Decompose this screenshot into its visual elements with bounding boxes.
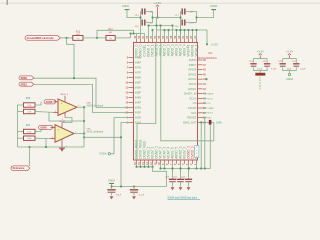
- svg-text:GNDA: GNDA: [108, 180, 115, 183]
- wire: [115, 37, 130, 39]
- svg-text:IN2N: IN2N: [135, 116, 141, 120]
- svg-text:0.1uF: 0.1uF: [271, 68, 277, 70]
- svg-text:+2.5V: +2.5V: [154, 1, 162, 5]
- svg-text:0.1uF: 0.1uF: [300, 68, 306, 70]
- svg-text:IN8P: IN8P: [135, 61, 141, 65]
- wire BIAS pin down: [121, 123, 129, 187]
- svg-text:DAISY_IN: DAISY_IN: [184, 92, 196, 96]
- svg-text:GNDA: GNDA: [286, 78, 294, 81]
- svg-text:100k: 100k: [27, 138, 31, 140]
- frame tick top-left: [6, 0, 8, 5]
- svg-text:R12: R12: [108, 28, 113, 31]
- net labels right of IC: [203, 93, 207, 95]
- wire +3.3V drop: [206, 30, 208, 44]
- wire from RESET pin down: [203, 118, 205, 169]
- wire op2 output: [74, 133, 86, 135]
- svg-text:IC1: IC1: [208, 51, 213, 55]
- svg-text:SRB1: SRB1: [21, 83, 28, 86]
- op-amp U$4: [58, 99, 77, 116]
- svg-text:DVDD: DVDD: [189, 58, 197, 62]
- wire cap right rail: [152, 12, 154, 23]
- svg-text:IN5N: IN5N: [135, 86, 141, 90]
- wire cluster A left rail drop: [140, 23, 142, 34]
- wire drop from R11 node down: [67, 38, 75, 78]
- svg-text:RST: RST: [207, 118, 212, 120]
- IC1 right pins: [198, 59, 203, 61]
- svg-text:CLK: CLK: [191, 111, 196, 115]
- svg-text:Ground/REF electrode: Ground/REF electrode: [27, 36, 55, 40]
- svg-text:GNDA: GNDA: [59, 120, 65, 123]
- op IC body IC1: [134, 43, 198, 161]
- wire gnda rail: [112, 186, 167, 188]
- frame box bottom-right inside IC: [195, 146, 199, 158]
- wire cap left rail: [140, 12, 142, 23]
- supply AVSS bar: [255, 73, 265, 76]
- wire feedback op2: [45, 139, 47, 147]
- svg-text:0.1uF: 0.1uF: [139, 194, 145, 196]
- svg-text:START: START: [207, 107, 215, 110]
- wire bypass over R12: [97, 30, 134, 38]
- junction: [96, 37, 98, 39]
- svg-text:AVDD: AVDD: [61, 93, 67, 96]
- wire through IC interior A: [137, 43, 156, 161]
- net label SRB2: [19, 76, 34, 80]
- wire bottom bus right: [161, 168, 211, 170]
- svg-text:IN6P: IN6P: [135, 81, 141, 85]
- wire SRB2 to IN pin: [34, 78, 129, 107]
- svg-text:10uF: 10uF: [257, 68, 262, 70]
- net label AGND op1: [44, 100, 56, 104]
- svg-text:GPIO4: GPIO4: [188, 68, 197, 72]
- svg-text:START: START: [188, 106, 197, 110]
- wire branch feedback to BIAS: [84, 136, 121, 138]
- svg-text:+3.3V: +3.3V: [257, 49, 265, 53]
- svg-text:GPIO3: GPIO3: [188, 72, 197, 76]
- svg-text:AGND: AGND: [40, 126, 47, 129]
- svg-text:SCLK: SCLK: [189, 96, 196, 100]
- svg-text:IN4N: IN4N: [135, 96, 141, 100]
- wire bottom gnd group: [137, 166, 153, 168]
- wire cluster B left rail drop: [180, 23, 182, 40]
- svg-text:IN7N: IN7N: [135, 66, 141, 70]
- wire left bus: [18, 105, 24, 147]
- svg-text:MCLK: MCLK: [207, 113, 214, 115]
- svg-text:VCAP_1: VCAP_1: [195, 44, 199, 56]
- svg-text:AVSS_feedback: AVSS_feedback: [87, 131, 104, 134]
- wire to top pins rail: [130, 34, 132, 38]
- svg-text:BIAS_OUT: BIAS_OUT: [183, 120, 197, 124]
- svg-text:100k: 100k: [27, 111, 31, 113]
- svg-text:R15: R15: [26, 98, 31, 100]
- supply +3.3V right of IC: [206, 43, 208, 45]
- IC1 left pins: [129, 57, 134, 59]
- svg-text:+3.3V: +3.3V: [211, 43, 219, 47]
- ground GNDA under bank: [288, 73, 290, 75]
- wire cap left rail: [180, 12, 182, 23]
- wire SRB1 to IN pin: [34, 84, 129, 112]
- wire right loop: [209, 125, 211, 169]
- svg-text:AGND: AGND: [46, 101, 53, 104]
- wire second vertical: [200, 122, 202, 124]
- wire gnd to caps: [127, 10, 141, 18]
- wire through IC interior B: [161, 43, 214, 141]
- capacitor C20: [130, 190, 138, 192]
- wire rail2: [157, 29, 208, 31]
- svg-text:ADS1299IPAG: ADS1299IPAG: [198, 56, 218, 60]
- IC1 bottom pins: [136, 160, 138, 164]
- svg-text:100k: 100k: [27, 131, 31, 133]
- wire rail3: [131, 33, 145, 35]
- svg-text:GPIO1: GPIO1: [188, 87, 197, 91]
- svg-text:IN8N: IN8N: [135, 56, 141, 60]
- junction: [66, 37, 68, 39]
- wire feedback to -in: [49, 112, 84, 121]
- svg-text:DAISY: DAISY: [207, 93, 214, 96]
- wire pin risers top: [136, 34, 138, 40]
- net label AGND op2: [39, 125, 54, 129]
- wire cap right rail: [196, 12, 198, 23]
- wire gnda to pin: [111, 118, 129, 154]
- wire op1 output + feedback: [77, 106, 86, 108]
- wire reference bus: [18, 146, 85, 148]
- IC1 top pins: [136, 39, 138, 43]
- net label Reference: [11, 166, 30, 171]
- svg-text:CS: CS: [193, 101, 197, 105]
- net label SRB1: [19, 82, 34, 86]
- ground AGND below op2: [59, 147, 65, 149]
- wire R16 to -in: [35, 111, 54, 114]
- svg-text:GPIO2: GPIO2: [188, 77, 197, 81]
- svg-text:10k: 10k: [109, 38, 112, 40]
- wire: [61, 37, 73, 39]
- svg-text:G: G: [259, 80, 261, 82]
- svg-text:+3.3V: +3.3V: [286, 49, 294, 53]
- svg-text:10uF: 10uF: [116, 194, 122, 196]
- svg-text:IN6N: IN6N: [135, 76, 141, 80]
- svg-text:R11: R11: [76, 30, 81, 33]
- svg-text:IN3N: IN3N: [135, 106, 141, 110]
- svg-text:AVDD_feedback: AVDD_feedback: [87, 104, 105, 107]
- svg-text:R17: R17: [26, 125, 31, 127]
- svg-text:RESET: RESET: [187, 116, 196, 120]
- svg-text:GNDA: GNDA: [99, 153, 107, 156]
- wire R15 to +in: [35, 102, 41, 105]
- wire rail1: [149, 25, 173, 27]
- wire to ground: [197, 10, 214, 18]
- svg-text:IN3P: IN3P: [135, 111, 141, 115]
- svg-text:IN4P: IN4P: [135, 101, 141, 105]
- wire R18 to -in: [35, 137, 51, 139]
- svg-text:GNDA and DGND star point: GNDA and DGND star point: [168, 196, 198, 199]
- wire down to Reference label: [29, 147, 31, 166]
- svg-text:Reference: Reference: [13, 167, 25, 170]
- solder jumper SJ1: [203, 121, 209, 123]
- svg-text:100k: 100k: [27, 105, 31, 107]
- svg-text:GNDA: GNDA: [210, 5, 218, 8]
- capacitor C19: [107, 190, 115, 192]
- svg-text:10uF: 10uF: [287, 68, 292, 70]
- svg-text:IN7P: IN7P: [135, 71, 141, 75]
- svg-text:10k: 10k: [76, 38, 79, 40]
- svg-text:CS: CS: [207, 103, 211, 105]
- wire R17 to +in: [35, 127, 41, 131]
- svg-text:DRDY: DRDY: [189, 63, 197, 67]
- svg-text:SRB2: SRB2: [21, 77, 28, 80]
- wire op1 V- to op2 V+: [62, 118, 72, 123]
- wire: [83, 37, 106, 39]
- svg-text:SCLK: SCLK: [207, 98, 213, 100]
- svg-text:1V8S: 1V8S: [216, 122, 222, 124]
- wire +2.5V rail: [153, 17, 181, 19]
- net label Ground/REF electrode: [25, 36, 61, 41]
- frame top edge: [0, 2, 320, 4]
- svg-text:GNDA: GNDA: [122, 5, 130, 8]
- op-amp U$5: [55, 125, 74, 143]
- svg-text:DOUT: DOUT: [189, 82, 197, 86]
- svg-text:IN5P: IN5P: [135, 91, 141, 95]
